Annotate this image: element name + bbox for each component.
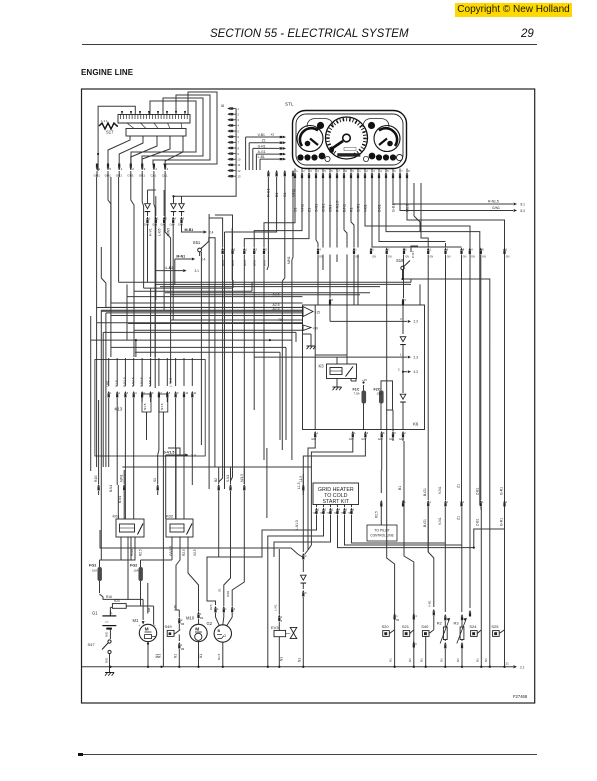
- svg-text:1: 1: [430, 501, 432, 504]
- svg-text:10A: 10A: [134, 569, 139, 573]
- svg-text:4: 4: [238, 124, 240, 128]
- svg-text:N1: N1: [199, 654, 203, 658]
- svg-text:V-N1: V-N1: [300, 204, 304, 212]
- svg-text:GA9: GA9: [170, 224, 176, 227]
- svg-text:S1: S1: [293, 208, 297, 212]
- svg-text:5: 5: [405, 298, 407, 302]
- svg-text:N1: N1: [408, 658, 412, 662]
- svg-text:1: 1: [430, 248, 432, 252]
- svg-text:K13: K13: [115, 407, 123, 412]
- svg-text:15A: 15A: [377, 392, 382, 396]
- svg-text:GA: GA: [348, 512, 352, 515]
- svg-text:1: 1: [149, 217, 151, 221]
- svg-text:EV3: EV3: [271, 625, 279, 630]
- svg-text:1: 1: [355, 248, 357, 252]
- svg-text:3: 3: [332, 509, 334, 512]
- svg-text:4.3: 4.3: [414, 370, 419, 374]
- svg-text:G/V1.5: G/V1.5: [169, 546, 173, 556]
- svg-text:G/N1: G/N1: [321, 204, 325, 212]
- svg-text:9: 9: [238, 152, 240, 156]
- svg-text:+: +: [111, 612, 113, 616]
- svg-text:7.5A: 7.5A: [354, 392, 360, 396]
- svg-text:1: 1: [181, 644, 183, 647]
- svg-text:4: 4: [339, 509, 341, 512]
- svg-text:N1: N1: [279, 657, 283, 661]
- svg-text:B/N1: B/N1: [253, 260, 257, 266]
- svg-text:5: 5: [324, 169, 326, 173]
- svg-text:3: 3: [238, 118, 240, 122]
- svg-text:9: 9: [144, 167, 146, 171]
- svg-text:8.1: 8.1: [521, 203, 526, 207]
- svg-text:H-V1: H-V1: [149, 228, 153, 236]
- svg-text:6: 6: [353, 509, 355, 512]
- svg-text:2: 2: [303, 169, 305, 173]
- svg-text:G-B1: G-B1: [391, 204, 395, 212]
- svg-text:R2.5: R2.5: [139, 549, 143, 556]
- svg-text:M4: M4: [200, 618, 204, 620]
- svg-text:1: 1: [318, 509, 320, 512]
- svg-text:5: 5: [346, 509, 348, 512]
- svg-text:L-N1.5: L-N1.5: [295, 520, 299, 530]
- svg-text:G-V1.5: G-V1.5: [163, 451, 174, 455]
- svg-text:2: 2: [132, 167, 134, 171]
- svg-text:G-R1: G-R1: [258, 144, 266, 148]
- svg-text:M9: M9: [181, 624, 185, 626]
- svg-text:S-N1: S-N1: [314, 204, 318, 212]
- svg-text:4: 4: [167, 167, 169, 171]
- svg-text:3: 3: [256, 248, 258, 252]
- svg-text:FG1: FG1: [89, 564, 96, 568]
- svg-text:Z1: Z1: [457, 516, 461, 520]
- svg-text:CONTROL LINE: CONTROL LINE: [370, 534, 393, 538]
- svg-text:6: 6: [238, 135, 240, 139]
- svg-text:G1: G1: [92, 611, 98, 616]
- svg-text:4: 4: [317, 169, 319, 173]
- svg-text:1: 1: [359, 169, 361, 173]
- svg-text:1: 1: [110, 392, 112, 395]
- svg-text:N1: N1: [439, 658, 443, 662]
- svg-text:6: 6: [331, 169, 333, 173]
- svg-text:5: 5: [144, 392, 146, 395]
- svg-text:10: 10: [238, 158, 241, 162]
- svg-text:5: 5: [387, 169, 389, 173]
- svg-text:4: 4: [415, 615, 417, 618]
- svg-text:1: 1: [157, 217, 159, 221]
- svg-text:B2: B2: [214, 478, 218, 482]
- svg-text:START KIT: START KIT: [323, 499, 350, 505]
- svg-text:10: 10: [185, 392, 188, 395]
- svg-text:V-N1: V-N1: [173, 604, 177, 611]
- svg-text:6: 6: [405, 248, 407, 252]
- svg-text:N1: N1: [298, 658, 302, 662]
- svg-text:V-B1: V-B1: [363, 204, 367, 212]
- svg-text:GA9: GA9: [399, 438, 404, 441]
- svg-text:M/N1: M/N1: [287, 256, 291, 264]
- svg-text:8: 8: [482, 248, 484, 252]
- svg-text:8: 8: [415, 644, 417, 646]
- svg-text:N/O: N/O: [105, 657, 109, 663]
- svg-text:S24: S24: [469, 624, 477, 629]
- svg-text:4: 4: [135, 392, 137, 395]
- svg-text:M1.5: M1.5: [405, 204, 409, 212]
- svg-text:6: 6: [152, 392, 154, 395]
- svg-text:L-G5: L-G5: [158, 228, 162, 236]
- svg-text:S40: S40: [421, 624, 429, 629]
- svg-text:V-N1: V-N1: [438, 486, 442, 494]
- svg-text:B-N1.5: B-N1.5: [123, 377, 127, 387]
- svg-text:2: 2: [366, 169, 368, 173]
- svg-text:1: 1: [400, 353, 402, 357]
- svg-text:R2S: R2S: [209, 604, 213, 610]
- svg-text:12: 12: [238, 169, 241, 173]
- svg-text:3: 3: [310, 169, 312, 173]
- svg-text:GN: GN: [319, 256, 323, 259]
- svg-text:1: 1: [281, 616, 283, 619]
- svg-text:GA9: GA9: [152, 224, 158, 227]
- svg-text:1: 1: [98, 167, 100, 171]
- svg-text:N/O: N/O: [105, 631, 109, 637]
- svg-text:4: 4: [319, 248, 321, 252]
- svg-text:3.1: 3.1: [195, 269, 200, 273]
- svg-text:10A: 10A: [92, 569, 97, 573]
- svg-text:1: 1: [396, 615, 398, 618]
- svg-text:8: 8: [408, 169, 410, 173]
- svg-text:7: 7: [338, 169, 340, 173]
- svg-text:B-N1.5: B-N1.5: [131, 377, 135, 387]
- svg-text:GN: GN: [388, 256, 392, 259]
- svg-text:B: B: [218, 629, 221, 633]
- svg-text:G-R1: G-R1: [500, 487, 504, 495]
- svg-text:S17: S17: [106, 130, 114, 135]
- svg-text:2: 2: [325, 509, 327, 512]
- svg-text:9: 9: [177, 392, 179, 395]
- svg-text:1: 1: [200, 613, 202, 616]
- svg-text:L-N1.5: L-N1.5: [169, 377, 173, 387]
- svg-text:+15: +15: [362, 378, 367, 382]
- svg-text:N1: N1: [389, 658, 393, 662]
- svg-text:S21: S21: [402, 624, 410, 629]
- svg-text:B-G1: B-G1: [423, 519, 427, 527]
- svg-text:S18: S18: [396, 258, 404, 263]
- svg-text:1: 1: [404, 501, 406, 504]
- svg-text:R1: R1: [349, 207, 353, 212]
- svg-text:13: 13: [238, 174, 241, 178]
- svg-text:8: 8: [238, 146, 240, 150]
- svg-text:1: 1: [506, 501, 508, 504]
- svg-text:1: 1: [296, 169, 298, 173]
- svg-text:TO PILOT: TO PILOT: [374, 529, 389, 533]
- svg-text:6: 6: [372, 248, 374, 252]
- svg-text:2: 2: [217, 608, 219, 611]
- svg-text:GR1: GR1: [94, 174, 101, 178]
- svg-text:M-B1: M-B1: [185, 228, 194, 232]
- svg-text:L/N1: L/N1: [106, 380, 110, 387]
- svg-text:2: 2: [398, 368, 400, 372]
- svg-text:R1G: R1G: [94, 475, 98, 482]
- svg-text:1: 1: [121, 167, 123, 171]
- svg-text:Z1: Z1: [307, 208, 311, 212]
- svg-text:G/N1: G/N1: [492, 206, 500, 210]
- svg-text:B-N1: B-N1: [109, 485, 113, 492]
- svg-text:+30: +30: [313, 327, 319, 331]
- svg-text:STL: STL: [285, 102, 294, 107]
- svg-text:M/1.5: M/1.5: [240, 474, 244, 482]
- svg-text:2.4: 2.4: [201, 257, 206, 261]
- svg-text:R2.5: R2.5: [182, 549, 186, 556]
- svg-text:0: 0: [305, 591, 307, 595]
- svg-text:Z-B1: Z-B1: [476, 488, 480, 495]
- svg-text:GA9: GA9: [178, 224, 184, 227]
- svg-text:Z-B1: Z-B1: [377, 204, 381, 212]
- svg-text:K6: K6: [413, 422, 419, 427]
- svg-text:2: 2: [404, 431, 406, 435]
- svg-text:9: 9: [394, 431, 396, 435]
- svg-text:2.3: 2.3: [414, 320, 419, 324]
- svg-text:N1.5: N1.5: [143, 403, 147, 410]
- svg-text:GA9: GA9: [144, 224, 150, 227]
- svg-text:B-N1.5: B-N1.5: [140, 377, 144, 387]
- svg-text:GA9: GA9: [311, 438, 316, 441]
- svg-text:B/N1: B/N1: [263, 260, 267, 266]
- svg-text:5: 5: [183, 217, 185, 221]
- svg-text:V-N1: V-N1: [438, 517, 442, 525]
- svg-text:F27468: F27468: [513, 694, 528, 699]
- svg-text:N1: N1: [174, 654, 178, 658]
- svg-text:2.1: 2.1: [520, 665, 525, 669]
- svg-text:GA9: GA9: [349, 438, 354, 441]
- svg-text:6: 6: [447, 248, 449, 252]
- svg-text:Z1: Z1: [262, 139, 266, 143]
- svg-text:3: 3: [367, 431, 369, 435]
- svg-text:6: 6: [394, 169, 396, 173]
- svg-text:R2: R2: [437, 621, 443, 626]
- svg-text:B/N1: B/N1: [243, 260, 247, 266]
- svg-text:S20: S20: [382, 624, 390, 629]
- svg-text:GN: GN: [482, 256, 486, 259]
- svg-text:GN: GN: [405, 256, 409, 259]
- svg-text:A2.5: A2.5: [273, 307, 280, 311]
- svg-text:G-R1: G-R1: [500, 518, 504, 526]
- svg-text:M/N1: M/N1: [120, 474, 124, 482]
- svg-text:GN: GN: [447, 256, 451, 259]
- svg-text:A2.5: A2.5: [273, 292, 280, 296]
- svg-text:21: 21: [506, 662, 510, 666]
- svg-text:C-N1: C-N1: [411, 251, 415, 258]
- svg-text:GN: GN: [463, 256, 467, 259]
- svg-text:1: 1: [155, 167, 157, 171]
- svg-text:X3: X3: [271, 132, 275, 136]
- svg-text:CA1: CA1: [162, 174, 168, 178]
- svg-text:11: 11: [238, 163, 241, 167]
- svg-text:G2: G2: [207, 621, 213, 626]
- svg-text:6: 6: [281, 621, 283, 623]
- svg-text:2.4: 2.4: [209, 230, 214, 234]
- svg-text:M9: M9: [181, 649, 185, 651]
- svg-text:L-B1: L-B1: [258, 155, 265, 159]
- svg-text:3: 3: [127, 392, 129, 395]
- svg-text:12v: 12v: [105, 622, 109, 624]
- svg-text:S51: S51: [193, 240, 201, 245]
- svg-text:N1: N1: [420, 658, 424, 662]
- svg-text:GA9: GA9: [161, 224, 167, 227]
- svg-text:R6: R6: [279, 318, 283, 322]
- svg-text:11: 11: [194, 392, 197, 395]
- svg-text:GA9: GA9: [378, 438, 383, 441]
- svg-text:GA: GA: [327, 512, 331, 515]
- svg-text:8: 8: [169, 392, 171, 395]
- svg-text:GR1: GR1: [139, 174, 146, 178]
- svg-text:1 1 1: 1 1 1: [101, 119, 108, 123]
- svg-text:CA1: CA1: [151, 174, 157, 178]
- svg-text:R/N4: R/N4: [130, 549, 134, 556]
- svg-text:2: 2: [119, 392, 121, 395]
- svg-text:N1.5: N1.5: [160, 403, 164, 410]
- svg-text:2: 2: [238, 112, 240, 116]
- svg-text:V-B1: V-B1: [258, 133, 265, 137]
- svg-text:B-G1: B-G1: [423, 488, 427, 496]
- svg-text:L1.5: L1.5: [297, 482, 301, 489]
- svg-text:4: 4: [380, 169, 382, 173]
- svg-text:GR1: GR1: [127, 174, 133, 178]
- svg-text:GN: GN: [471, 256, 475, 259]
- svg-text:0: 0: [305, 554, 307, 558]
- svg-text:1: 1: [225, 608, 227, 611]
- svg-text:1: 1: [354, 431, 356, 435]
- svg-text:6: 6: [383, 431, 385, 435]
- svg-text:GN: GN: [355, 256, 359, 259]
- svg-text:M: M: [145, 627, 149, 633]
- svg-text:1: 1: [238, 107, 240, 111]
- svg-text:7: 7: [160, 392, 162, 395]
- svg-text:L-B1: L-B1: [166, 266, 174, 270]
- svg-text:1: 1: [506, 248, 508, 252]
- svg-text:B-N1: B-N1: [118, 496, 122, 503]
- svg-text:2: 2: [234, 248, 236, 252]
- svg-text:2: 2: [181, 619, 183, 622]
- svg-text:S49: S49: [165, 624, 173, 629]
- svg-text:1: 1: [317, 431, 319, 435]
- svg-text:L1.5: L1.5: [299, 476, 303, 482]
- svg-text:GN: GN: [372, 256, 376, 259]
- svg-text:4: 4: [224, 248, 226, 252]
- svg-text:M/N5: M/N5: [167, 228, 171, 236]
- svg-text:FG2: FG2: [130, 564, 137, 568]
- svg-text:9: 9: [352, 169, 354, 173]
- svg-text:GN: GN: [506, 256, 510, 259]
- svg-text:M10: M10: [186, 616, 195, 621]
- svg-text:GR1: GR1: [105, 174, 112, 178]
- svg-text:1: 1: [447, 501, 449, 504]
- svg-text:B-M1.5: B-M1.5: [148, 377, 152, 387]
- svg-text:S25: S25: [491, 624, 499, 629]
- svg-text:8: 8: [345, 169, 347, 173]
- svg-text:+: +: [154, 624, 156, 628]
- svg-text:8: 8: [463, 248, 465, 252]
- svg-text:K3: K3: [319, 364, 325, 369]
- svg-text:1: 1: [246, 248, 248, 252]
- svg-text:N1.5: N1.5: [115, 380, 119, 387]
- svg-text:B1: B1: [398, 486, 402, 490]
- svg-text:+: +: [139, 624, 141, 628]
- svg-text:GA: GA: [320, 512, 324, 515]
- svg-text:N1.5: N1.5: [217, 653, 221, 660]
- svg-text:2.3: 2.3: [414, 355, 419, 359]
- svg-text:S-N1: S-N1: [226, 475, 230, 482]
- svg-text:GR1: GR1: [116, 174, 123, 178]
- svg-text:7: 7: [401, 169, 403, 173]
- svg-text:B/N1: B/N1: [221, 260, 225, 266]
- svg-text:3: 3: [165, 217, 167, 221]
- svg-text:1: 1: [463, 501, 465, 504]
- svg-text:1: 1: [482, 501, 484, 504]
- svg-text:5: 5: [109, 167, 111, 171]
- svg-text:5.4: 5.4: [191, 454, 196, 458]
- svg-text:S1: S1: [153, 478, 157, 482]
- svg-text:GA: GA: [334, 512, 338, 515]
- svg-text:Z-B1: Z-B1: [476, 519, 480, 526]
- svg-text:R-N1.5: R-N1.5: [488, 200, 499, 204]
- svg-text:4: 4: [174, 217, 176, 221]
- svg-text:+15: +15: [315, 311, 321, 315]
- svg-text:N1: N1: [155, 654, 159, 658]
- svg-text:N1: N1: [484, 658, 488, 662]
- svg-text:3: 3: [400, 317, 402, 321]
- svg-text:S1: S1: [217, 588, 221, 592]
- svg-text:GA9: GA9: [361, 438, 366, 441]
- svg-text:Z1: Z1: [457, 484, 461, 488]
- svg-text:K02: K02: [166, 514, 174, 519]
- svg-text:GN: GN: [430, 256, 434, 259]
- svg-text:2: 2: [388, 248, 390, 252]
- svg-text:M: M: [195, 627, 199, 633]
- svg-text:8.3: 8.3: [521, 209, 526, 213]
- svg-text:5: 5: [238, 129, 240, 133]
- svg-text:R3: R3: [454, 621, 460, 626]
- svg-text:GA: GA: [341, 512, 345, 515]
- svg-text:V-B1: V-B1: [428, 600, 432, 607]
- svg-text:M8: M8: [147, 608, 151, 612]
- svg-text:B1: B1: [275, 193, 279, 197]
- svg-text:N1: N1: [475, 658, 479, 662]
- svg-text:I8: I8: [221, 104, 224, 108]
- svg-text:GA: GA: [313, 512, 317, 515]
- svg-text:V2.5: V2.5: [193, 549, 197, 556]
- svg-text:R2.5: R2.5: [375, 511, 379, 518]
- svg-text:V-N1: V-N1: [291, 189, 295, 197]
- svg-text:B/N1: B/N1: [231, 260, 235, 266]
- svg-text:3: 3: [234, 608, 236, 611]
- svg-text:K01: K01: [113, 514, 121, 519]
- svg-text:GN1: GN1: [328, 205, 332, 212]
- svg-text:R16: R16: [106, 595, 112, 599]
- svg-text:R-N1.5: R-N1.5: [335, 201, 339, 212]
- svg-text:M1: M1: [133, 618, 139, 623]
- svg-text:R-G1: R-G1: [267, 188, 271, 197]
- svg-text:A-G1: A-G1: [258, 150, 266, 154]
- svg-text:L-N1: L-N1: [273, 604, 277, 611]
- svg-text:S1: S1: [283, 193, 287, 197]
- svg-text:4: 4: [471, 248, 473, 252]
- svg-text:8: 8: [332, 298, 334, 302]
- svg-text:G/R1: G/R1: [356, 204, 360, 212]
- svg-text:M-N1: M-N1: [176, 254, 185, 258]
- svg-text:5: 5: [265, 248, 267, 252]
- svg-text:R/N1: R/N1: [226, 590, 230, 597]
- svg-text:B/N1: B/N1: [342, 204, 346, 212]
- svg-text:3: 3: [373, 169, 375, 173]
- svg-text:R20: R20: [114, 599, 120, 603]
- svg-text:S47: S47: [88, 642, 96, 647]
